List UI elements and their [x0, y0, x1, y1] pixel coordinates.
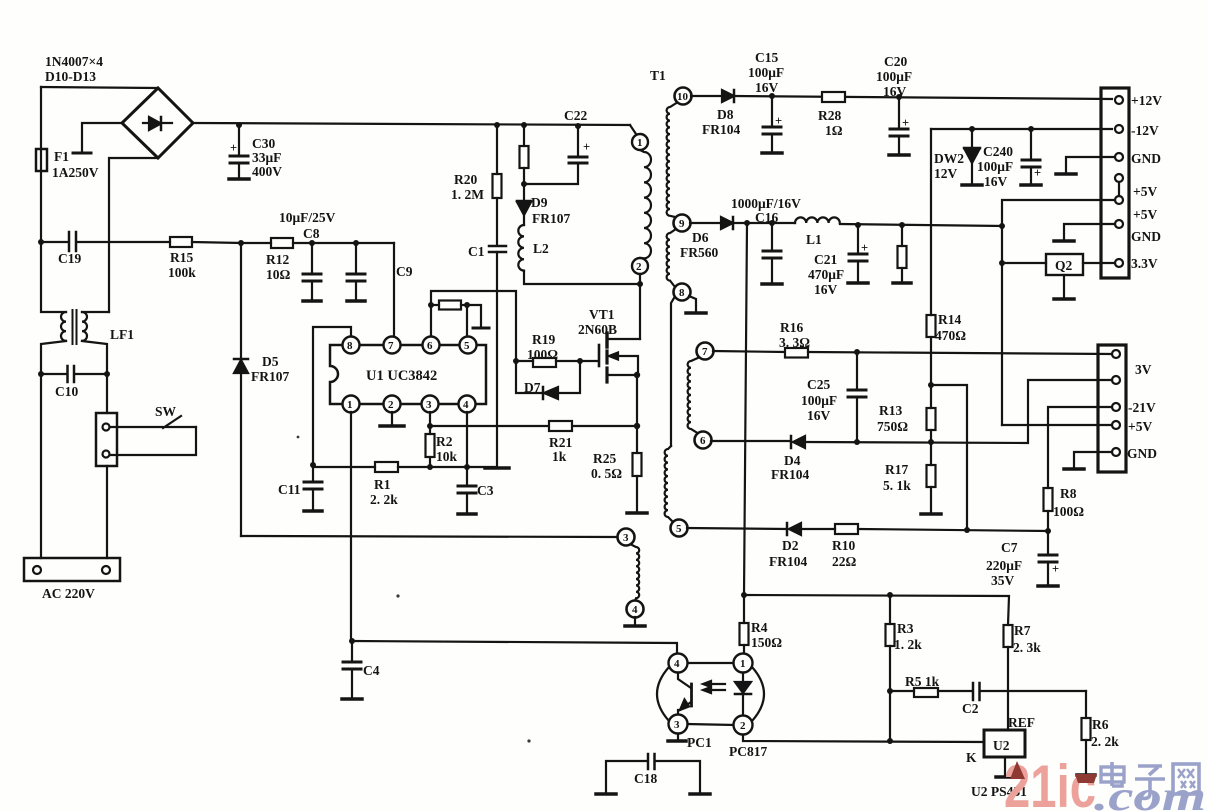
node source rail: [634, 423, 640, 429]
svg-text:1. 2k: 1. 2k: [894, 637, 922, 652]
svg-text:3.3V: 3.3V: [1131, 256, 1158, 271]
ground C1: [485, 466, 509, 470]
svg-text:D6: D6: [692, 230, 709, 245]
capacitor C8: [303, 243, 321, 301]
svg-text:2: 2: [388, 399, 394, 411]
svg-text:R28: R28: [818, 108, 841, 123]
regulator Q2: [1002, 254, 1115, 275]
pin 3: [422, 396, 439, 413]
svg-text:L1: L1: [806, 232, 822, 247]
resistor R2: [426, 426, 458, 467]
T1 winding 3-4: [630, 544, 639, 601]
wire fb rail: [744, 595, 1009, 625]
svg-text:C20: C20: [884, 54, 907, 69]
node R3 rail: [887, 738, 893, 744]
node D6 out: [744, 220, 750, 226]
wire pin1 down: [350, 412, 352, 641]
svg-text:R20: R20: [454, 172, 477, 187]
svg-text:U1 UC3842: U1 UC3842: [366, 368, 437, 384]
svg-text:Q2: Q2: [1055, 258, 1073, 273]
wire pin3 rail: [430, 425, 637, 427]
svg-text:LF1: LF1: [110, 327, 134, 342]
svg-text:6: 6: [427, 340, 433, 352]
zener DW2: [934, 129, 982, 185]
svg-text:C240: C240: [983, 144, 1013, 159]
resistor R19: [516, 332, 598, 367]
optocoupler PC1 PC817: [657, 654, 767, 760]
svg-text:12V: 12V: [934, 166, 958, 181]
connector J1: [1101, 88, 1129, 278]
capacitor C19: [41, 232, 170, 266]
svg-text:FR104: FR104: [771, 467, 809, 482]
svg-text:33μF: 33μF: [252, 150, 281, 165]
svg-text:1Ω: 1Ω: [825, 123, 843, 138]
watermark dianzi wang: [1101, 762, 1199, 798]
resistor R17: [883, 442, 941, 514]
shunt reg U2 PS431: [966, 715, 1035, 799]
svg-text:R4: R4: [751, 620, 768, 635]
svg-text:1000μF/16V: 1000μF/16V: [731, 196, 801, 211]
T1 pin 5: [671, 520, 688, 537]
ground R25: [627, 511, 647, 515]
svg-text:2. 3k: 2. 3k: [1013, 640, 1041, 655]
svg-text:+: +: [902, 116, 909, 130]
node C4: [349, 638, 355, 644]
wire feedback vertical: [744, 223, 747, 623]
resistor R16: [713, 320, 1112, 358]
svg-text:PC817: PC817: [729, 744, 767, 759]
svg-text:3: 3: [426, 399, 432, 411]
svg-text:R10: R10: [832, 538, 855, 553]
node speck a: [396, 594, 399, 597]
capacitor C20: [876, 54, 912, 155]
svg-text:R7: R7: [1014, 623, 1031, 638]
svg-text:16V: 16V: [883, 84, 907, 99]
T1 secondary winding lower: [665, 446, 673, 522]
wire pin3 down: [429, 412, 431, 426]
svg-text:R3: R3: [897, 621, 914, 636]
wire main HV rail: [193, 123, 630, 125]
capacitor C10: [41, 366, 107, 399]
svg-text:.com: .com: [1094, 774, 1206, 811]
svg-text:100Ω: 100Ω: [527, 347, 558, 362]
svg-text:100μF: 100μF: [748, 65, 784, 80]
T1 pin 1: [632, 134, 648, 150]
svg-text:C4: C4: [363, 663, 380, 678]
svg-text:D4: D4: [784, 453, 801, 468]
wire source down: [636, 375, 638, 426]
svg-text:-12V: -12V: [1131, 123, 1159, 138]
svg-text:AC 220V: AC 220V: [42, 586, 95, 601]
node speck c: [297, 436, 300, 439]
svg-text:GND: GND: [1127, 446, 1157, 461]
resistor R21: [549, 421, 572, 464]
svg-text:2N60B: 2N60B: [578, 322, 617, 337]
ground Q2: [1054, 275, 1074, 299]
node C11: [310, 462, 316, 468]
svg-text:DW2: DW2: [934, 151, 964, 166]
svg-text:+: +: [583, 140, 590, 154]
capacitor C11: [278, 465, 322, 511]
node HV rail junction C30: [236, 122, 242, 128]
fuse F1: [36, 149, 99, 180]
svg-text:4: 4: [632, 604, 638, 616]
inductor LF1: [41, 242, 134, 374]
svg-text:SW: SW: [155, 404, 177, 419]
svg-text:1: 1: [740, 658, 746, 670]
svg-text:3: 3: [623, 532, 629, 544]
svg-text:FR560: FR560: [680, 245, 718, 260]
diode D9: [517, 195, 570, 226]
pin 7: [384, 337, 401, 354]
svg-text:-21V: -21V: [1128, 400, 1156, 415]
wire AC top to bridge: [41, 87, 157, 88]
svg-text:C7: C7: [1001, 540, 1018, 555]
svg-text:+: +: [861, 241, 868, 255]
svg-text:10μF/25V: 10μF/25V: [279, 210, 336, 225]
node C3: [464, 464, 470, 470]
svg-text:4: 4: [674, 658, 680, 670]
wire SW to plug: [106, 466, 108, 558]
svg-text:400V: 400V: [252, 164, 282, 179]
svg-text:220μF: 220μF: [986, 558, 1022, 573]
node R19 right: [577, 358, 583, 364]
svg-text:L2: L2: [533, 241, 549, 256]
svg-text:100k: 100k: [168, 265, 196, 280]
svg-text:9: 9: [679, 218, 685, 230]
node AC line left: [38, 239, 44, 245]
T1 pin 7: [697, 343, 714, 360]
svg-text:R25: R25: [593, 451, 616, 466]
node pin3: [427, 423, 433, 429]
T1 pin 4: [627, 601, 644, 618]
svg-text:GND: GND: [1131, 151, 1161, 166]
svg-text:C16: C16: [755, 210, 778, 225]
svg-text:D8: D8: [717, 107, 734, 122]
svg-text:100μF: 100μF: [876, 69, 912, 84]
resistor R7: [1004, 623, 1042, 730]
capacitor C21: [808, 225, 868, 297]
pin +5V J2: [1002, 419, 1152, 434]
capacitor C7: [986, 531, 1059, 588]
wire R14 tap: [931, 385, 967, 530]
pin 3.3V: [1115, 256, 1158, 271]
svg-text:470Ω: 470Ω: [935, 328, 966, 343]
T1 primary winding 1-2: [640, 150, 651, 258]
svg-text:C8: C8: [303, 226, 320, 241]
pin GND J2: [1112, 446, 1157, 461]
node speck b: [527, 739, 530, 742]
svg-text:FR107: FR107: [251, 369, 289, 384]
wire primary return rail: [241, 536, 617, 537]
svg-text:T1: T1: [650, 68, 666, 83]
pin GND1: [1115, 151, 1161, 166]
svg-text:FR104: FR104: [769, 554, 807, 569]
resistor snubber: [520, 125, 529, 200]
svg-text:4: 4: [463, 399, 469, 411]
pin J2-1: [1112, 350, 1152, 377]
node tap rail: [964, 527, 970, 533]
svg-text:C3: C3: [477, 483, 494, 498]
resistor bleeder: [893, 225, 911, 283]
wire C4 rail to PC1: [352, 641, 677, 654]
pin 6: [423, 337, 440, 354]
node C20: [896, 94, 902, 100]
svg-text:750Ω: 750Ω: [877, 419, 908, 434]
wire Vcc to pin7: [393, 243, 395, 337]
pin 4: [459, 396, 476, 413]
wire pin4 down: [466, 412, 468, 467]
T1 pin 3: [618, 529, 635, 546]
resistor R6: [1077, 691, 1119, 775]
svg-text:5: 5: [464, 340, 470, 352]
resistor R4: [740, 620, 783, 653]
svg-text:10: 10: [677, 91, 689, 103]
wire bridge bottom to LF1 right: [109, 158, 158, 312]
resistor R1: [313, 462, 497, 507]
switch SW: [96, 404, 196, 466]
svg-text:C25: C25: [807, 377, 830, 392]
wire pin2 down: [639, 274, 641, 284]
svg-text:1N4007×4: 1N4007×4: [45, 54, 103, 69]
node C10 right: [104, 371, 110, 377]
pin -12V: [1115, 123, 1159, 138]
svg-text:1. 2M: 1. 2M: [451, 187, 484, 202]
svg-text:D5: D5: [262, 354, 279, 369]
svg-text:PC1: PC1: [687, 735, 712, 750]
resistor R10: [832, 524, 1048, 569]
inductor L1: [795, 217, 840, 247]
T1 pin 6: [695, 432, 712, 449]
svg-text:R6: R6: [1092, 717, 1109, 732]
pin GND2: [1115, 220, 1161, 244]
svg-text:1k: 1k: [552, 449, 567, 464]
node snubber mid: [521, 181, 527, 187]
ground PC1 pin3: [668, 734, 712, 750]
capacitor C18: [596, 754, 710, 794]
node D5 top: [238, 240, 244, 246]
diode D7: [516, 361, 580, 399]
capacitor C9: [347, 243, 413, 301]
svg-text:R19: R19: [532, 332, 555, 347]
wire PC1 pin2 down: [743, 735, 984, 742]
node R3 bottom: [887, 688, 893, 694]
svg-text:F1: F1: [54, 149, 69, 164]
capacitor C240: [977, 129, 1041, 189]
node C21: [855, 222, 861, 228]
resistor R20: [451, 125, 502, 244]
svg-text:R13: R13: [879, 403, 902, 418]
svg-text:7: 7: [702, 346, 708, 358]
ground pin5 stub: [467, 305, 489, 328]
svg-text:16V: 16V: [984, 174, 1008, 189]
svg-text:C30: C30: [252, 136, 275, 151]
svg-text:D10-D13: D10-D13: [45, 69, 96, 84]
pin 5Vb: [1002, 196, 1157, 425]
svg-text:100Ω: 100Ω: [1053, 504, 1084, 519]
svg-text:16V: 16V: [814, 282, 838, 297]
svg-text:470μF: 470μF: [808, 267, 844, 282]
node C8: [309, 240, 315, 246]
svg-text:R14: R14: [938, 312, 961, 327]
svg-text:U2: U2: [993, 738, 1010, 753]
diode D2: [687, 523, 835, 569]
pin -21V: [1112, 400, 1156, 415]
pin 8: [343, 337, 360, 354]
svg-text:C11: C11: [278, 482, 301, 497]
node R13 bottom: [928, 439, 934, 445]
watermark 21ic: [1004, 753, 1097, 811]
AC plug AC220V: [24, 558, 120, 601]
capacitor C4: [342, 641, 380, 699]
pin 1: [343, 396, 360, 413]
ground J2: [1064, 452, 1112, 469]
connector J2: [1098, 345, 1126, 472]
capacitor C2: [962, 683, 1086, 716]
svg-text:3. 3Ω: 3. 3Ω: [779, 335, 810, 350]
svg-text:22Ω: 22Ω: [832, 554, 857, 569]
svg-text:2: 2: [636, 261, 642, 273]
node C15: [769, 93, 775, 99]
svg-text:C15: C15: [755, 50, 778, 65]
svg-text:2: 2: [740, 720, 746, 732]
svg-text:C22: C22: [564, 108, 587, 123]
svg-text:0. 5Ω: 0. 5Ω: [591, 466, 622, 481]
svg-text:R12: R12: [266, 252, 289, 267]
svg-text:16V: 16V: [755, 80, 779, 95]
svg-text:3: 3: [674, 719, 680, 731]
pin 2: [384, 396, 401, 413]
T1 core segment: [671, 298, 674, 446]
svg-text:GND: GND: [1131, 229, 1161, 244]
node C9: [353, 240, 359, 246]
svg-text:8: 8: [679, 287, 685, 299]
svg-text:FR104: FR104: [702, 122, 740, 137]
svg-text:5: 5: [676, 523, 682, 535]
node R19 left: [513, 358, 519, 364]
svg-text:C9: C9: [396, 264, 413, 279]
svg-text:35V: 35V: [991, 573, 1015, 588]
wire L2 to drain rail: [524, 271, 640, 284]
svg-text:7: 7: [388, 340, 394, 352]
ground GND1: [1056, 157, 1115, 174]
inductor L2: [518, 225, 549, 271]
svg-text:VT1: VT1: [589, 307, 615, 322]
resistor R5: [890, 674, 971, 697]
wire left AC vertical: [40, 87, 42, 242]
capacitor C30: [229, 125, 282, 179]
svg-text:REF: REF: [1008, 715, 1035, 730]
svg-text:+: +: [230, 141, 237, 155]
svg-text:2. 2k: 2. 2k: [1091, 734, 1119, 749]
svg-text:R5 1k: R5 1k: [905, 674, 940, 689]
wire pin5 up: [466, 305, 468, 336]
ground T1 pin8: [686, 296, 706, 313]
svg-text:D9: D9: [531, 195, 548, 210]
svg-text:R16: R16: [780, 320, 803, 335]
ground U2: [996, 757, 1014, 777]
wire 5V rail: [840, 224, 1003, 226]
svg-text:16V: 16V: [807, 408, 831, 423]
svg-text:2. 2k: 2. 2k: [370, 492, 398, 507]
svg-text:5. 1k: 5. 1k: [883, 478, 911, 493]
wire -12V down chain: [930, 129, 932, 315]
svg-text:+: +: [1034, 166, 1041, 180]
svg-text:D7: D7: [524, 380, 541, 395]
node C7 top: [1045, 528, 1051, 534]
node pin5 res: [464, 302, 470, 308]
transistor VT1 2N60B mosfet: [578, 284, 640, 382]
node drain: [637, 281, 643, 287]
capacitor C25: [801, 352, 866, 442]
svg-text:6: 6: [700, 435, 706, 447]
svg-text:R1: R1: [374, 477, 391, 492]
svg-text:+: +: [1052, 562, 1059, 576]
svg-text:FR107: FR107: [532, 211, 570, 226]
svg-text:1: 1: [347, 399, 353, 411]
wire pin6 loop top: [431, 291, 516, 361]
IC U1 UC3842: [330, 345, 486, 404]
node R3 top: [887, 592, 893, 598]
resistor R25: [591, 426, 642, 512]
pin +12V: [1115, 93, 1162, 108]
svg-text:+: +: [775, 114, 782, 128]
svg-text:R21: R21: [549, 435, 572, 450]
svg-text:1A250V: 1A250V: [52, 165, 99, 180]
T1 secondary winding upper: [667, 102, 678, 287]
svg-text:C18: C18: [634, 771, 657, 786]
node 5V vert b: [999, 260, 1005, 266]
pin J2-2: [1112, 376, 1120, 384]
ground pin2: [380, 412, 404, 426]
bridge rectifier D10-D13: [122, 88, 193, 158]
node C25 top: [854, 349, 860, 355]
diode D4: [711, 380, 1112, 482]
svg-text:+5V: +5V: [1133, 207, 1157, 222]
diode D8: [691, 90, 1112, 137]
svg-text:+12V: +12V: [1131, 93, 1162, 108]
svg-text:1: 1: [637, 137, 643, 149]
node snubber top: [521, 122, 527, 128]
resistor R3: [886, 595, 923, 740]
svg-text:D2: D2: [782, 538, 799, 553]
T1 pin 10: [675, 88, 692, 105]
resistor R13: [877, 385, 936, 442]
T1 pin 8: [674, 284, 691, 301]
svg-text:3V: 3V: [1135, 362, 1152, 377]
svg-text:R17: R17: [885, 462, 908, 477]
svg-text:C19: C19: [58, 251, 81, 266]
pin 5Va: [1115, 174, 1157, 199]
svg-text:C2: C2: [962, 701, 979, 716]
node C10 left: [38, 371, 44, 377]
capacitor C3: [458, 467, 494, 514]
svg-text:10k: 10k: [436, 449, 458, 464]
ground T1 pin4: [625, 617, 645, 626]
resistor R28: [818, 92, 845, 138]
node source: [634, 372, 640, 378]
wire pin8 feedback: [313, 327, 351, 465]
capacitor C22: [524, 108, 590, 184]
wire SW feed: [106, 374, 108, 413]
diode D6: [680, 217, 795, 260]
T1 pin 9: [674, 215, 691, 232]
svg-text:C10: C10: [55, 384, 78, 399]
capacitor C16: [762, 223, 782, 284]
svg-text:150Ω: 150Ω: [751, 635, 782, 650]
svg-text:R8: R8: [1060, 486, 1077, 501]
svg-text:C21: C21: [814, 252, 837, 267]
